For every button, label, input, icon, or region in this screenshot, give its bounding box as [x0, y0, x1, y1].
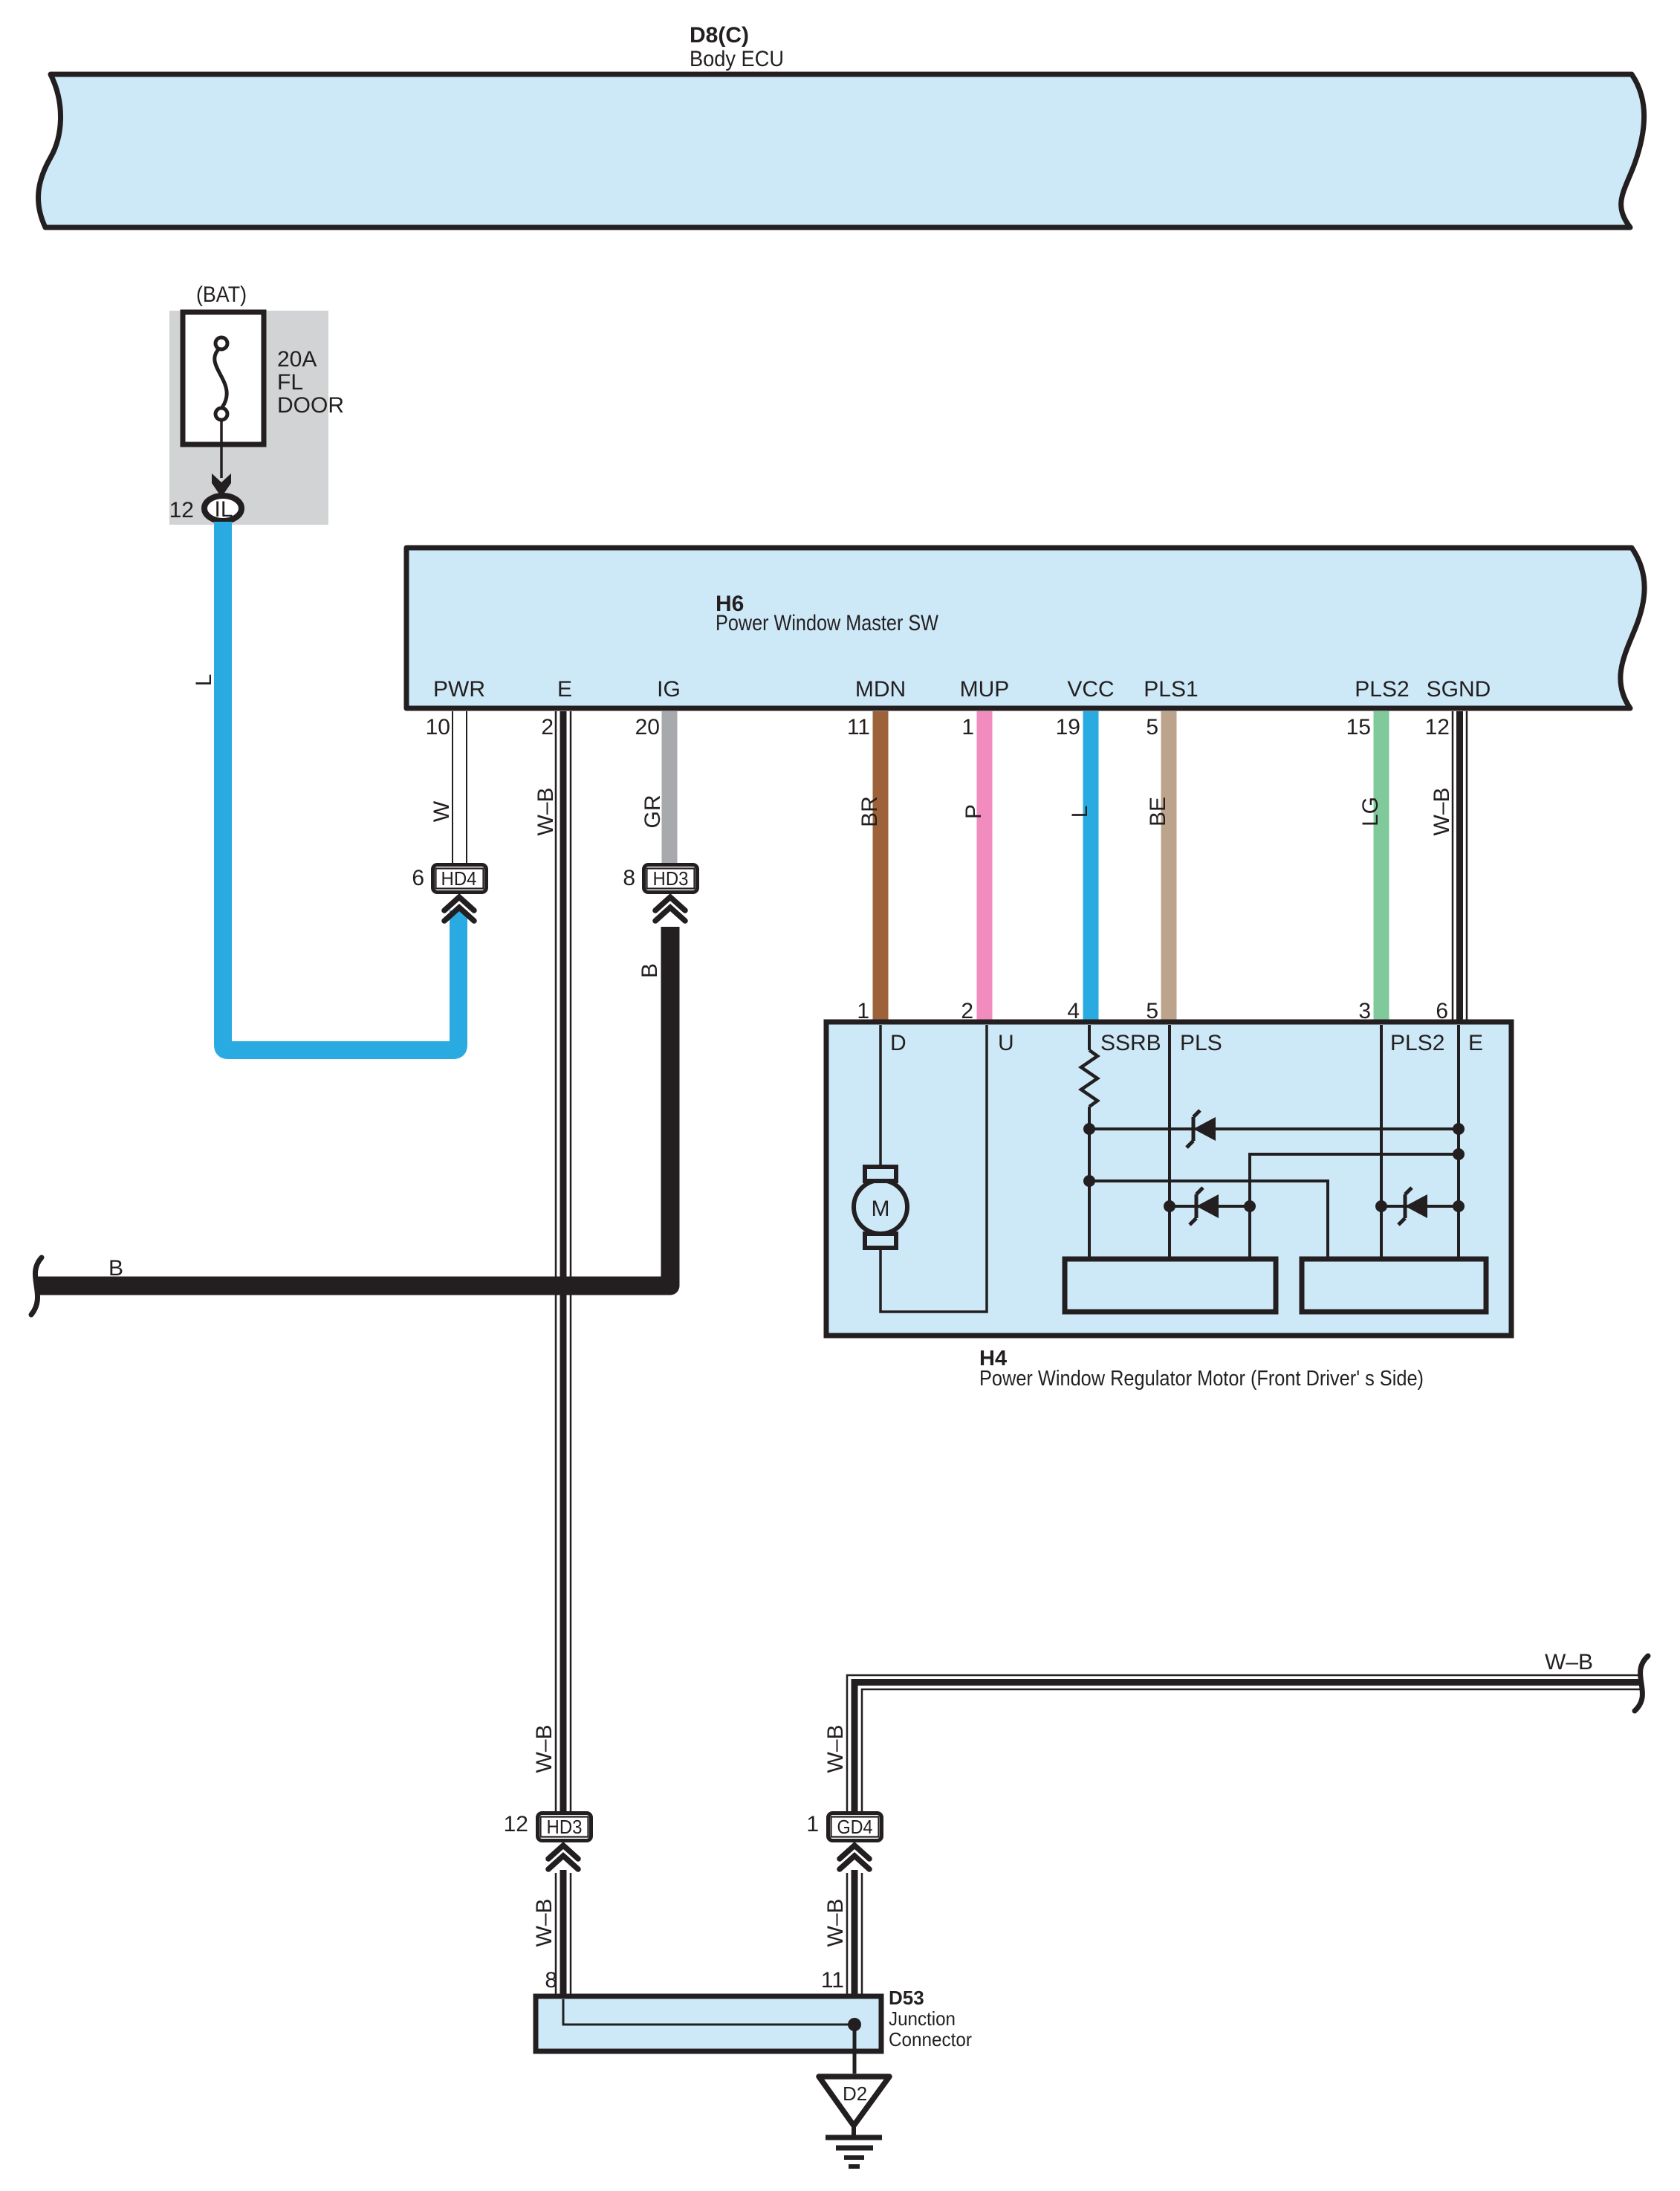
svg-text:3: 3: [1358, 999, 1371, 1023]
svg-text:W–B: W–B: [1545, 1650, 1593, 1674]
svg-text:8: 8: [545, 1968, 557, 1993]
svg-text:Power Window Master SW: Power Window Master SW: [716, 611, 939, 635]
svg-text:10: 10: [426, 715, 450, 739]
svg-text:Connector: Connector: [889, 2028, 972, 2051]
svg-text:P: P: [961, 804, 986, 819]
svg-text:(BAT): (BAT): [196, 282, 247, 307]
svg-text:B: B: [638, 963, 662, 978]
svg-text:MDN: MDN: [855, 677, 906, 702]
svg-text:Body ECU: Body ECU: [690, 47, 784, 71]
svg-text:1: 1: [961, 715, 974, 739]
svg-text:PLS2: PLS2: [1355, 677, 1409, 702]
svg-text:W–B: W–B: [823, 1898, 848, 1946]
svg-text:W: W: [429, 800, 454, 822]
svg-text:D2: D2: [843, 2082, 867, 2105]
svg-text:12: 12: [504, 1812, 528, 1836]
svg-text:MUP: MUP: [960, 677, 1010, 702]
svg-text:6: 6: [412, 866, 424, 890]
svg-text:19: 19: [1056, 715, 1080, 739]
svg-text:11: 11: [847, 715, 870, 739]
svg-text:8: 8: [623, 866, 635, 890]
svg-text:1: 1: [857, 999, 869, 1023]
svg-text:6: 6: [1436, 999, 1448, 1023]
svg-text:U: U: [998, 1031, 1014, 1055]
svg-text:HD3: HD3: [547, 1816, 583, 1838]
svg-text:FL: FL: [277, 370, 303, 395]
svg-text:LG: LG: [1358, 797, 1383, 826]
svg-text:11: 11: [821, 1968, 844, 1993]
svg-text:PLS1: PLS1: [1144, 677, 1198, 702]
svg-text:HD3: HD3: [653, 867, 689, 890]
svg-text:IG: IG: [657, 677, 681, 702]
svg-text:L: L: [1068, 806, 1092, 818]
svg-text:2: 2: [961, 999, 973, 1023]
svg-text:12: 12: [1425, 715, 1450, 739]
svg-text:L: L: [192, 674, 216, 687]
svg-text:M: M: [872, 1197, 890, 1221]
svg-text:B: B: [108, 1256, 123, 1281]
svg-text:PWR: PWR: [433, 677, 485, 702]
svg-text:BE: BE: [1146, 797, 1170, 826]
svg-text:12: 12: [169, 498, 194, 522]
svg-text:20A: 20A: [277, 347, 317, 372]
svg-text:D53: D53: [889, 1987, 924, 2009]
svg-text:W–B: W–B: [533, 787, 558, 835]
svg-text:GD4: GD4: [837, 1816, 873, 1838]
svg-text:W–B: W–B: [823, 1724, 848, 1773]
svg-text:VCC: VCC: [1067, 677, 1114, 702]
svg-text:E: E: [557, 677, 572, 702]
svg-text:W–B: W–B: [532, 1898, 557, 1946]
svg-text:20: 20: [635, 715, 660, 739]
svg-text:HD4: HD4: [441, 867, 477, 890]
svg-text:PLS2: PLS2: [1390, 1031, 1444, 1055]
svg-text:GR: GR: [640, 795, 665, 829]
svg-text:W–B: W–B: [532, 1724, 557, 1773]
svg-text:D8(C): D8(C): [690, 23, 749, 48]
svg-text:SSRB: SSRB: [1100, 1031, 1161, 1055]
svg-text:15: 15: [1346, 715, 1371, 739]
svg-text:E: E: [1468, 1031, 1483, 1055]
svg-text:Power Window Regulator Motor (: Power Window Regulator Motor (Front Driv…: [979, 1367, 1424, 1391]
svg-text:IL: IL: [214, 497, 233, 522]
svg-text:D: D: [890, 1031, 907, 1055]
svg-text:W–B: W–B: [1430, 787, 1454, 835]
svg-text:4: 4: [1067, 999, 1080, 1023]
svg-text:DOOR: DOOR: [277, 393, 344, 418]
svg-text:5: 5: [1146, 715, 1158, 739]
svg-text:1: 1: [806, 1812, 819, 1836]
svg-text:PLS: PLS: [1180, 1031, 1222, 1055]
svg-text:5: 5: [1146, 999, 1158, 1023]
svg-text:Junction: Junction: [889, 2007, 956, 2030]
svg-text:BR: BR: [857, 796, 882, 827]
svg-text:SGND: SGND: [1427, 677, 1491, 702]
svg-text:2: 2: [541, 715, 554, 739]
